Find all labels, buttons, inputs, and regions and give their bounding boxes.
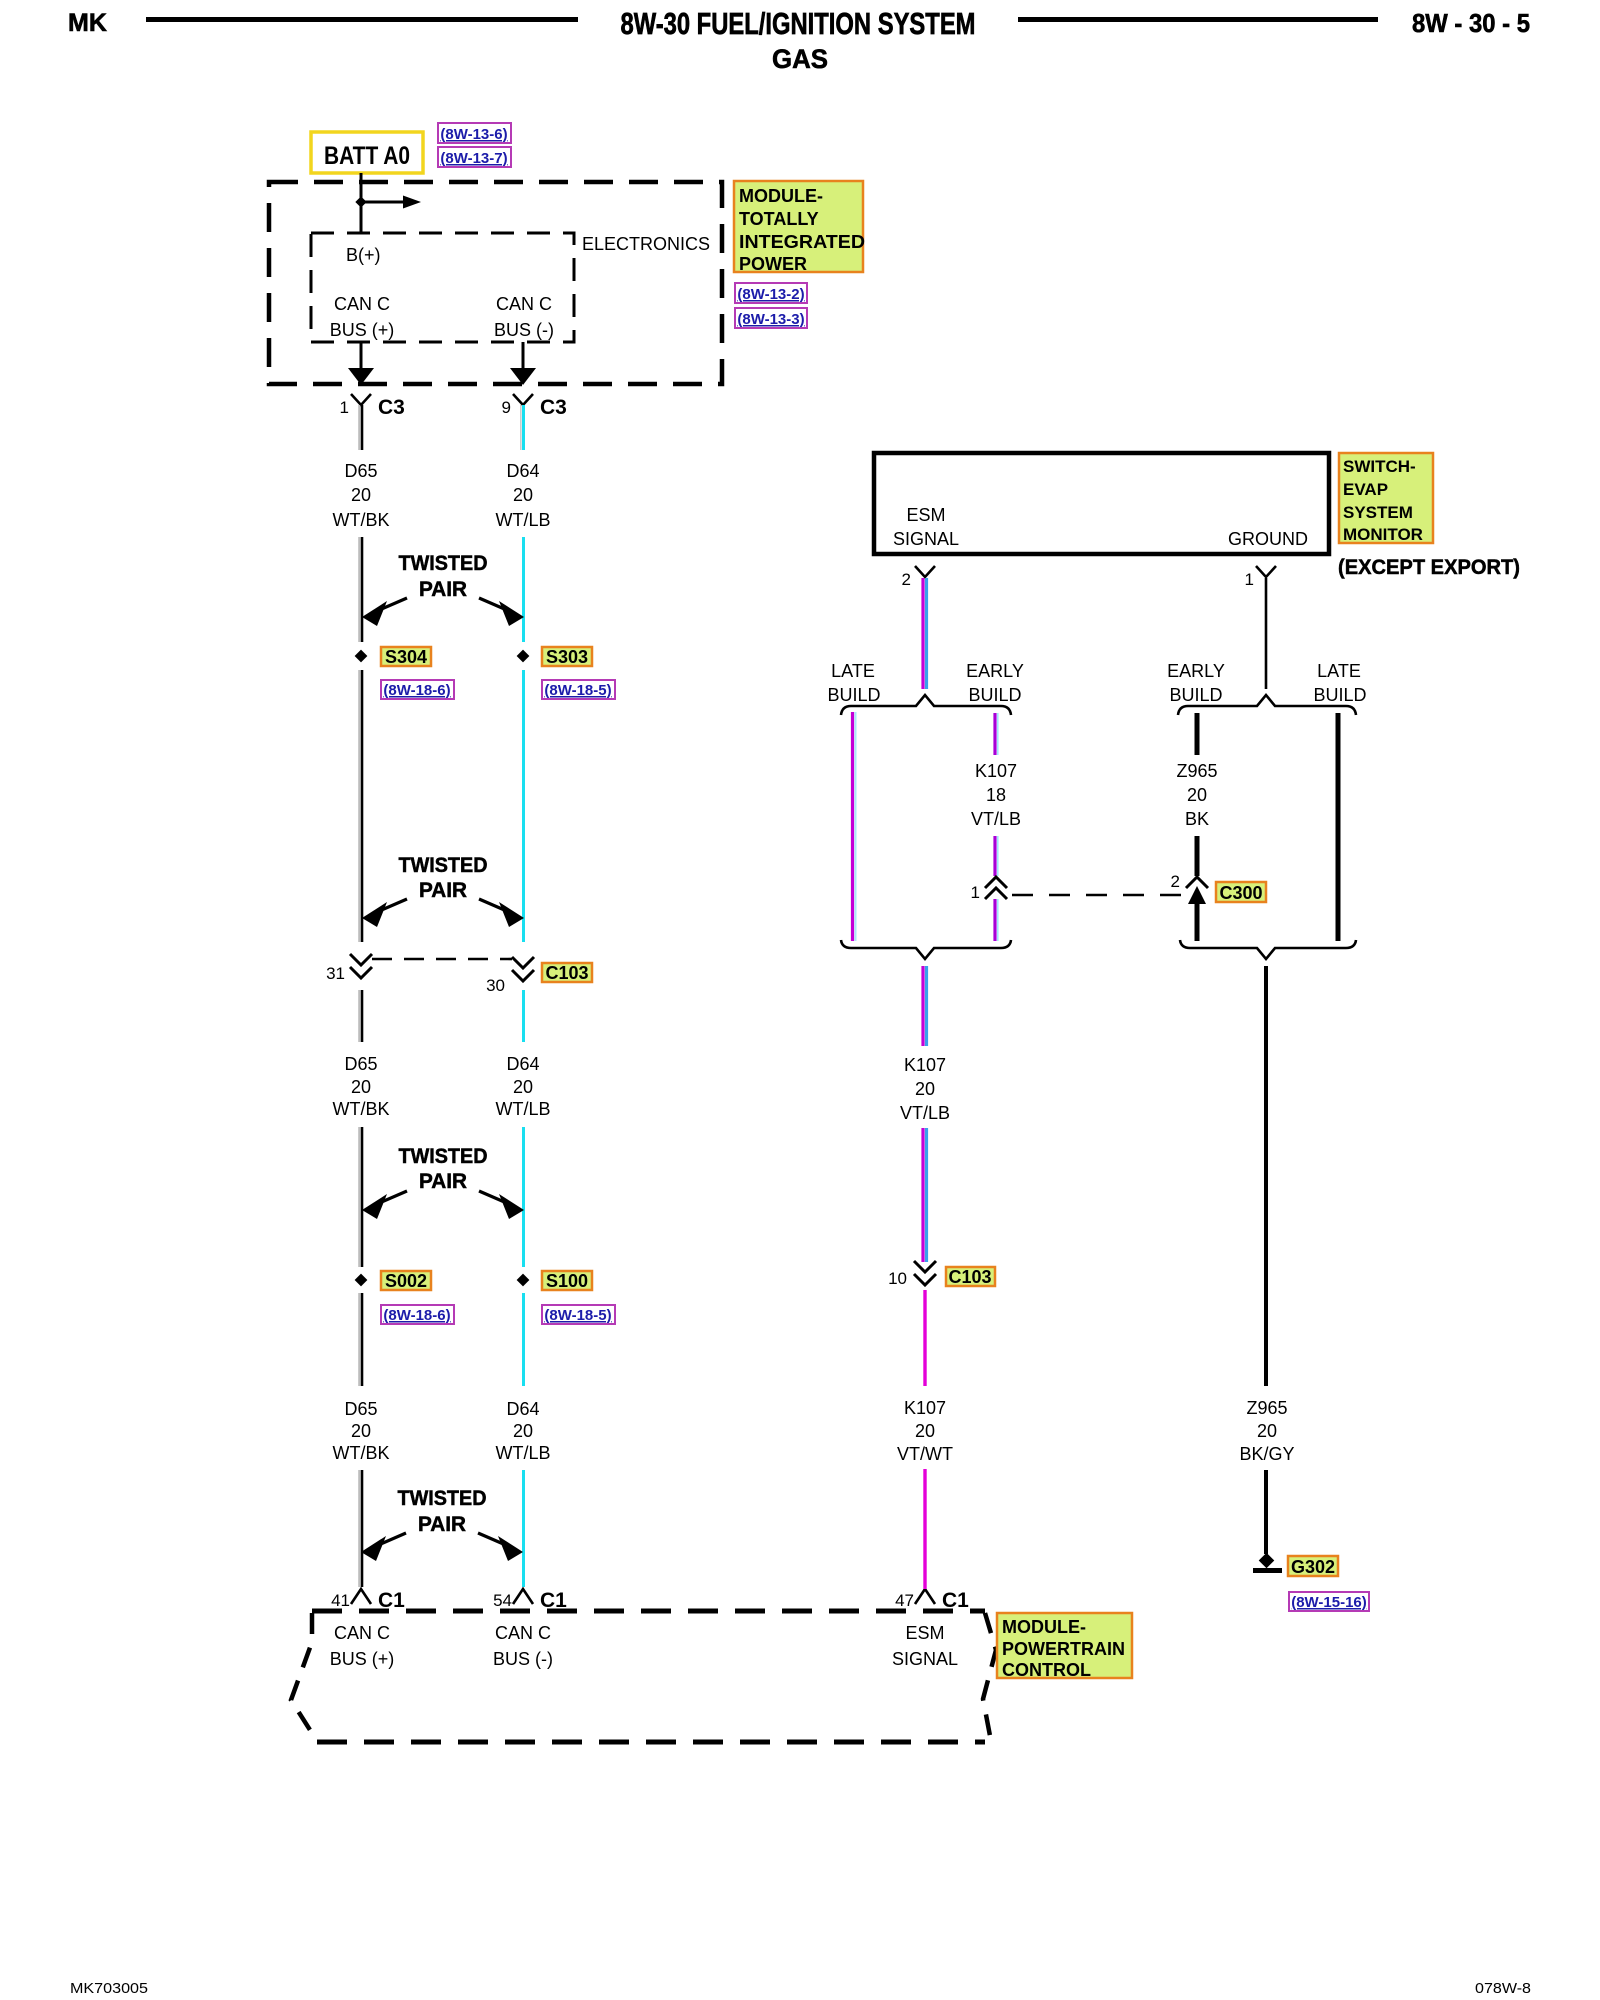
module PCM dashed outline right xyxy=(983,1613,996,1741)
header subtitle GAS xyxy=(772,44,828,74)
svg-text:WT/LB: WT/LB xyxy=(495,510,550,530)
svg-text:SYSTEM: SYSTEM xyxy=(1343,503,1413,522)
wire battery feed into TIPM xyxy=(360,173,363,233)
svg-text:POWER: POWER xyxy=(739,254,807,274)
svg-text:D64: D64 xyxy=(506,1054,539,1074)
wire late build ground branch xyxy=(1336,713,1341,941)
svg-text:G302: G302 xyxy=(1291,1557,1335,1577)
svg-text:20: 20 xyxy=(351,485,371,505)
svg-text:20: 20 xyxy=(513,1077,533,1097)
note (EXCEPT EXPORT) xyxy=(1338,556,1520,579)
svg-text:1: 1 xyxy=(1245,570,1254,589)
connector C1 pin 41 xyxy=(331,1589,405,1612)
wire early build below C300 pin 2 xyxy=(1195,904,1200,941)
link 8W-15-16 (G302) xyxy=(1289,1592,1369,1611)
svg-text:8W-30 FUEL/IGNITION SYSTEM: 8W-30 FUEL/IGNITION SYSTEM xyxy=(621,6,976,41)
splice S304 xyxy=(355,647,431,667)
wire K107 20 VT/WT upper xyxy=(923,1290,926,1386)
wire D65 WT/BK segment 3 xyxy=(359,670,362,942)
module TIPM outer dashed box xyxy=(269,182,722,384)
wire D64 WT/LB segment 4 xyxy=(522,990,525,1042)
link 8W-18-5 (S100) xyxy=(542,1305,615,1324)
wire CAN C BUS (+) inside TIPM xyxy=(348,342,374,385)
footer left MK703005 xyxy=(70,1980,148,1997)
connector C103 label xyxy=(542,963,592,983)
wire label D64 20 WT/LB (3) xyxy=(495,1399,550,1463)
link 8W-18-5 (S303) xyxy=(542,680,615,699)
wire label D65 20 WT/BK (2) xyxy=(333,1054,390,1119)
svg-text:MODULE-: MODULE- xyxy=(1002,1617,1086,1637)
svg-text:1: 1 xyxy=(971,883,980,902)
svg-text:47: 47 xyxy=(895,1591,914,1610)
connector C103 pin 10 xyxy=(888,1261,936,1288)
wire K107 20 VT/LB upper xyxy=(923,966,927,1046)
svg-text:BUILD: BUILD xyxy=(968,685,1021,705)
wire K107 20 VT/WT lower xyxy=(923,1469,926,1589)
svg-text:CAN C: CAN C xyxy=(334,294,390,314)
svg-text:PAIR: PAIR xyxy=(419,879,467,902)
svg-text:CAN C: CAN C xyxy=(334,1623,390,1643)
svg-text:TWISTED: TWISTED xyxy=(399,1145,488,1168)
svg-text:(8W-13-2): (8W-13-2) xyxy=(737,286,804,303)
svg-text:C103: C103 xyxy=(545,963,588,983)
svg-text:K107: K107 xyxy=(904,1055,946,1075)
connector C3 pin 1 xyxy=(340,394,405,419)
svg-text:ELECTRONICS: ELECTRONICS xyxy=(582,234,710,254)
svg-text:C300: C300 xyxy=(1219,883,1262,903)
svg-text:C3: C3 xyxy=(540,396,567,419)
svg-text:(8W-13-7): (8W-13-7) xyxy=(440,150,507,167)
svg-text:BK/GY: BK/GY xyxy=(1239,1444,1294,1464)
header rule right xyxy=(1018,17,1378,22)
wire ESM signal VT/LB from switch xyxy=(923,578,927,689)
brace merge ESM signal bottom xyxy=(841,940,1011,959)
svg-text:PAIR: PAIR xyxy=(418,1513,466,1536)
svg-text:WT/BK: WT/BK xyxy=(333,1443,390,1463)
svg-text:(8W-18-5): (8W-18-5) xyxy=(544,1307,611,1324)
switch label SWITCH-EVAP SYSTEM MONITOR xyxy=(1339,453,1433,544)
wire label Z965 20 BK xyxy=(1176,761,1217,829)
svg-text:TWISTED: TWISTED xyxy=(399,854,488,877)
svg-text:MK703005: MK703005 xyxy=(70,1980,148,1997)
svg-text:SIGNAL: SIGNAL xyxy=(892,1649,958,1669)
svg-text:20: 20 xyxy=(1187,785,1207,805)
svg-text:GAS: GAS xyxy=(772,44,828,74)
svg-text:D64: D64 xyxy=(506,1399,539,1419)
svg-text:BUS (-): BUS (-) xyxy=(494,320,554,340)
svg-text:31: 31 xyxy=(326,964,345,983)
connector C103 label (pin 10) xyxy=(946,1267,995,1287)
wire D64 WT/LB segment 1 xyxy=(521,405,524,450)
svg-text:EVAP: EVAP xyxy=(1343,480,1388,499)
wire label Z965 20 BK/GY xyxy=(1239,1398,1294,1464)
connector C1 pin 47 xyxy=(895,1589,969,1612)
connector C103 mate dashes xyxy=(372,958,512,961)
svg-text:B(+): B(+) xyxy=(346,245,381,265)
link 8W-18-6 (S002) xyxy=(381,1305,454,1324)
svg-text:BUS (-): BUS (-) xyxy=(493,1649,553,1669)
pin label CAN C BUS (-) at PCM xyxy=(493,1623,553,1669)
connector C300 pin 2 xyxy=(1171,872,1208,904)
svg-text:20: 20 xyxy=(1257,1421,1277,1441)
wire late build VT/LB branch xyxy=(853,712,856,941)
pin label CAN C BUS (-) xyxy=(494,294,554,340)
svg-text:9: 9 xyxy=(502,398,511,417)
svg-text:S002: S002 xyxy=(385,1271,427,1291)
connector C1 pin 54 xyxy=(493,1589,567,1612)
label ELECTRONICS xyxy=(582,234,710,254)
footer right 078W-8 xyxy=(1475,1980,1531,1997)
connector C300 mate dashes xyxy=(1012,894,1181,897)
svg-text:BK: BK xyxy=(1185,809,1209,829)
connector C103 pin 30 xyxy=(486,957,534,995)
pin label CAN C BUS (+) at PCM xyxy=(330,1623,395,1669)
connector pin 2 at switch xyxy=(902,566,935,589)
svg-text:CAN C: CAN C xyxy=(496,294,552,314)
svg-text:078W-8: 078W-8 xyxy=(1475,1980,1531,1997)
svg-text:POWERTRAIN: POWERTRAIN xyxy=(1002,1639,1125,1659)
module PCM dashed outline bottom xyxy=(317,1740,985,1745)
wire early build Z965 20 BK upper xyxy=(1195,713,1200,755)
svg-text:WT/LB: WT/LB xyxy=(495,1443,550,1463)
svg-text:SIGNAL: SIGNAL xyxy=(893,529,959,549)
svg-text:S303: S303 xyxy=(546,647,588,667)
connector C103 pin 31 xyxy=(326,954,372,983)
svg-text:18: 18 xyxy=(986,785,1006,805)
svg-text:K107: K107 xyxy=(975,761,1017,781)
wire D65 WT/BK segment 2 xyxy=(359,537,362,642)
svg-text:20: 20 xyxy=(351,1077,371,1097)
link 8W-13-7 xyxy=(438,147,511,167)
wire label D65 20 WT/BK (1) xyxy=(333,461,390,530)
svg-text:WT/LB: WT/LB xyxy=(495,1099,550,1119)
wire Z965 20 BK/GY lower xyxy=(1264,1470,1268,1554)
wire early build K107 18 VT/LB lower xyxy=(995,836,998,876)
pin label GROUND at switch xyxy=(1228,529,1308,549)
link 8W-18-6 (S304) xyxy=(381,680,454,699)
svg-text:(8W-13-3): (8W-13-3) xyxy=(737,311,804,328)
svg-text:PAIR: PAIR xyxy=(419,578,467,601)
connector C300 label xyxy=(1216,882,1266,903)
svg-text:30: 30 xyxy=(486,976,505,995)
wire D64 WT/LB segment 5 xyxy=(522,1127,525,1267)
module PCM label MODULE-POWERTRAIN CONTROL xyxy=(997,1613,1132,1680)
brace split ESM signal top xyxy=(841,695,1011,715)
svg-text:BUS (+): BUS (+) xyxy=(330,320,395,340)
svg-text:MK: MK xyxy=(68,9,107,37)
wire D65 WT/BK segment 4 xyxy=(359,990,362,1042)
brace split ground top xyxy=(1178,695,1356,715)
connector C3 pin 9 xyxy=(502,394,567,419)
module TIPM label MODULE-TOTALLY INTEGRATED POWER xyxy=(734,181,865,274)
svg-text:C3: C3 xyxy=(378,396,405,419)
splice S002 xyxy=(355,1271,431,1291)
wire label K107 20 VT/LB xyxy=(900,1055,950,1123)
twisted pair callout 1 xyxy=(362,552,524,626)
svg-text:TWISTED: TWISTED xyxy=(398,1487,487,1510)
pin label ESM SIGNAL at PCM xyxy=(892,1623,958,1669)
svg-text:54: 54 xyxy=(493,1591,512,1610)
svg-text:20: 20 xyxy=(915,1421,935,1441)
svg-text:TOTALLY: TOTALLY xyxy=(739,209,819,229)
svg-text:8W - 30 - 5: 8W - 30 - 5 xyxy=(1412,8,1530,38)
link 8W-13-6 xyxy=(438,123,511,143)
label LATE BUILD (signal) xyxy=(827,661,880,705)
wire D65 WT/BK segment 7 xyxy=(359,1470,362,1587)
wire D65 WT/BK segment 5 xyxy=(359,1127,362,1267)
svg-text:VT/LB: VT/LB xyxy=(900,1103,950,1123)
svg-text:BUS (+): BUS (+) xyxy=(330,1649,395,1669)
svg-text:MONITOR: MONITOR xyxy=(1343,525,1423,544)
wire D64 WT/LB segment 2 xyxy=(522,537,525,642)
svg-text:(8W-18-5): (8W-18-5) xyxy=(544,682,611,699)
svg-text:INTEGRATED: INTEGRATED xyxy=(739,232,865,252)
wire label D65 20 WT/BK (3) xyxy=(333,1399,390,1463)
svg-text:TWISTED: TWISTED xyxy=(399,552,488,575)
svg-text:LATE: LATE xyxy=(1317,661,1361,681)
svg-text:Z965: Z965 xyxy=(1246,1398,1287,1418)
svg-text:WT/BK: WT/BK xyxy=(333,510,390,530)
twisted pair callout 2 xyxy=(362,854,524,927)
wire early build Z965 20 BK lower xyxy=(1195,836,1200,876)
svg-text:BUILD: BUILD xyxy=(1169,685,1222,705)
svg-text:(8W-15-16): (8W-15-16) xyxy=(1291,1594,1367,1611)
wire early build K107 18 VT/LB upper xyxy=(995,713,998,755)
splice S303 xyxy=(517,647,592,667)
wire CAN C BUS (-) inside TIPM xyxy=(510,342,536,385)
wire label K107 18 VT/LB xyxy=(971,761,1021,829)
svg-text:ESM: ESM xyxy=(905,1623,944,1643)
svg-text:BUILD: BUILD xyxy=(827,685,880,705)
svg-text:(8W-18-6): (8W-18-6) xyxy=(383,1307,450,1324)
svg-text:CAN C: CAN C xyxy=(495,1623,551,1643)
connector pin 1 at switch xyxy=(1245,566,1276,589)
wire D64 WT/LB segment 6 xyxy=(522,1293,525,1386)
svg-text:20: 20 xyxy=(513,1421,533,1441)
ground G302 label xyxy=(1288,1556,1338,1577)
svg-text:2: 2 xyxy=(902,570,911,589)
svg-text:CONTROL: CONTROL xyxy=(1002,1660,1091,1680)
header page number xyxy=(1412,8,1530,38)
svg-text:2: 2 xyxy=(1171,872,1180,891)
wire ground from switch pin 1 xyxy=(1265,578,1268,689)
connector C300 pin 1 xyxy=(971,877,1007,902)
svg-text:(EXCEPT EXPORT): (EXCEPT EXPORT) xyxy=(1338,556,1520,579)
junction on battery feed xyxy=(355,196,366,207)
svg-text:MODULE-: MODULE- xyxy=(739,186,823,206)
link 8W-13-3 xyxy=(735,308,807,328)
svg-text:20: 20 xyxy=(915,1079,935,1099)
svg-text:1: 1 xyxy=(340,398,349,417)
wire D64 WT/LB segment 7 xyxy=(522,1470,525,1587)
TIPM electronics inner dashed box xyxy=(311,233,574,342)
svg-text:Z965: Z965 xyxy=(1176,761,1217,781)
wire D65 WT/BK segment 6 xyxy=(359,1293,362,1386)
label EARLY BUILD (ground) xyxy=(1167,661,1225,705)
wire label D64 20 WT/LB (2) xyxy=(495,1054,550,1119)
svg-text:D65: D65 xyxy=(344,1399,377,1419)
header left text MK xyxy=(68,9,107,37)
svg-text:PAIR: PAIR xyxy=(419,1170,467,1193)
svg-text:GROUND: GROUND xyxy=(1228,529,1308,549)
svg-text:K107: K107 xyxy=(904,1398,946,1418)
svg-text:(8W-18-6): (8W-18-6) xyxy=(383,682,450,699)
wire label D64 20 WT/LB (1) xyxy=(495,461,550,530)
wire D65 WT/BK segment 1 xyxy=(359,405,362,450)
module PCM dashed outline left xyxy=(291,1613,317,1741)
svg-text:10: 10 xyxy=(888,1269,907,1288)
splice S100 xyxy=(517,1271,592,1291)
header rule left xyxy=(146,17,578,22)
svg-text:VT/WT: VT/WT xyxy=(897,1444,953,1464)
svg-text:D65: D65 xyxy=(344,461,377,481)
twisted pair callout 3 xyxy=(362,1145,524,1219)
ground G302 symbol xyxy=(1253,1553,1282,1573)
wire label K107 20 VT/WT xyxy=(897,1398,953,1464)
svg-text:BUILD: BUILD xyxy=(1313,685,1366,705)
link 8W-13-2 xyxy=(735,283,807,303)
svg-text:LATE: LATE xyxy=(831,661,875,681)
twisted pair callout 4 xyxy=(361,1487,523,1561)
svg-text:ESM: ESM xyxy=(906,505,945,525)
brace merge ground bottom xyxy=(1180,940,1356,959)
svg-text:EARLY: EARLY xyxy=(1167,661,1225,681)
svg-text:BATT A0: BATT A0 xyxy=(324,142,410,170)
svg-text:S100: S100 xyxy=(546,1271,588,1291)
svg-text:20: 20 xyxy=(513,485,533,505)
label EARLY BUILD (signal) xyxy=(966,661,1024,705)
svg-text:EARLY: EARLY xyxy=(966,661,1024,681)
header title xyxy=(621,6,976,41)
svg-text:C103: C103 xyxy=(948,1267,991,1287)
svg-text:(8W-13-6): (8W-13-6) xyxy=(440,126,507,143)
svg-text:SWITCH-: SWITCH- xyxy=(1343,457,1416,476)
svg-text:S304: S304 xyxy=(385,647,427,667)
wire Z965 20 BK/GY upper xyxy=(1264,966,1268,1386)
pin label CAN C BUS (+) xyxy=(330,294,395,340)
pin label ESM SIGNAL at switch xyxy=(893,505,959,549)
wire arrow to other circuits xyxy=(361,196,421,209)
wire D64 WT/LB segment 3 xyxy=(522,670,525,942)
svg-text:D64: D64 xyxy=(506,461,539,481)
svg-text:VT/LB: VT/LB xyxy=(971,809,1021,829)
module PCM dashed outline top xyxy=(312,1609,985,1614)
label LATE BUILD (ground) xyxy=(1313,661,1366,705)
pin label B(+) xyxy=(346,245,381,265)
wire K107 20 VT/LB lower xyxy=(923,1128,927,1262)
svg-text:WT/BK: WT/BK xyxy=(333,1099,390,1119)
switch ESM box xyxy=(874,453,1329,554)
battery feed BATT A0 box xyxy=(311,132,423,173)
wire early build below C300 pin 1 xyxy=(995,899,998,941)
svg-text:D65: D65 xyxy=(344,1054,377,1074)
svg-text:20: 20 xyxy=(351,1421,371,1441)
svg-text:41: 41 xyxy=(331,1591,350,1610)
